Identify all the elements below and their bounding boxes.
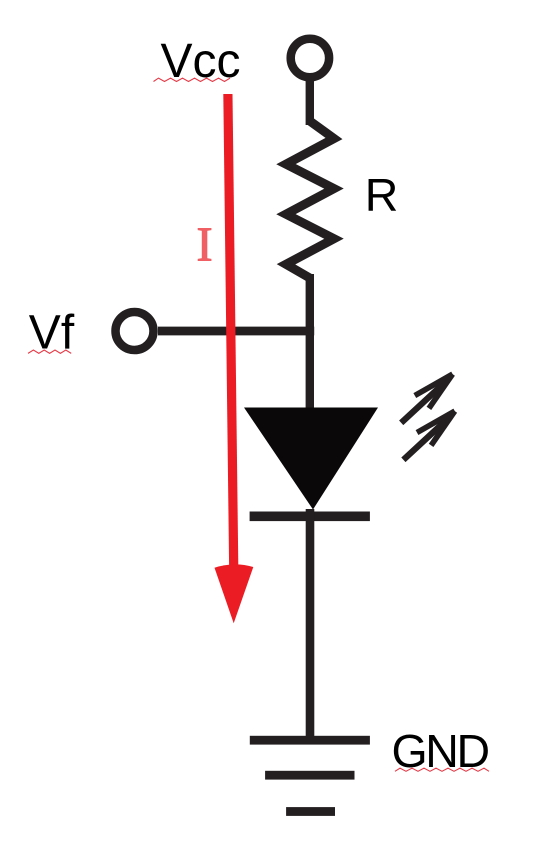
squiggly underline under Vf xyxy=(28,350,71,353)
wire (Vcc circle to resistor) xyxy=(306,81,314,125)
wire (Vf circle to main node, horizontal) xyxy=(158,327,314,336)
ground (bar 1, widest) xyxy=(250,736,370,745)
light emission arrow 2 (lower) xyxy=(403,411,454,460)
terminal Vf (left circle) xyxy=(116,312,154,350)
current arrow I (red, shaft) xyxy=(228,94,234,566)
svg-text:I: I xyxy=(196,217,212,272)
wire (resistor to LED anode) xyxy=(306,274,314,411)
LED D1 anode (filled triangle) xyxy=(244,408,378,510)
ground (bar 2, middle) xyxy=(265,771,354,780)
terminal Vcc (top circle) xyxy=(291,39,329,77)
LED D1 cathode bar xyxy=(250,512,370,522)
svg-text:Vcc: Vcc xyxy=(161,35,241,88)
current arrow I (red, head) xyxy=(215,564,254,623)
squiggly underline under GND xyxy=(395,768,489,771)
light emission arrow 1 (upper) xyxy=(401,374,452,423)
squiggly underline under Vcc xyxy=(154,78,231,81)
wire (cathode to ground) xyxy=(306,509,315,740)
svg-text:R: R xyxy=(365,169,399,221)
resistor R (zigzag) xyxy=(286,121,334,278)
ground (bar 3, smallest) xyxy=(286,807,335,816)
